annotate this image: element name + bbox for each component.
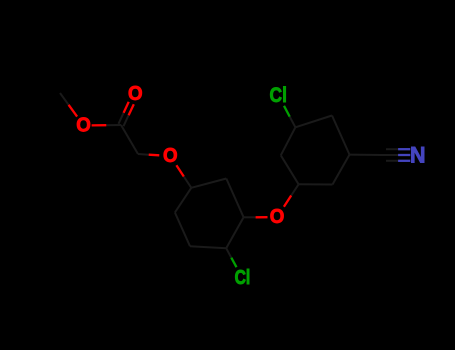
right benzene ring edge V_Cl-NE: [295, 116, 332, 128]
svg-text:O: O: [76, 115, 91, 137]
right benzene ring edge W-V_Cl: [281, 127, 296, 155]
left benzene ring edge B-C: [226, 179, 243, 218]
left benzene ring edge C-D: [226, 217, 243, 248]
svg-text:N: N: [410, 143, 426, 168]
right benzene ring edge SE-V_O: [299, 183, 333, 185]
double bond C2=O2 (carbonyl): [124, 115, 129, 126]
bond O3-A (aryl oxygen to left ring): [184, 177, 192, 188]
bond O4-V_O (right aryl oxygen to right ring): [291, 184, 298, 195]
left benzene ring edge E-F: [175, 213, 190, 247]
left benzene ring edge F-A: [175, 188, 191, 213]
right benzene ring edge NE-V_CN: [332, 116, 350, 155]
svg-text:O: O: [128, 83, 143, 105]
bond V_CN-CN (right ring to nitrile carbon): [350, 154, 387, 156]
bond C2-C3 (carbonyl carbon to CH2): [121, 125, 138, 154]
bond CH3-O1 (methyl to ester oxygen): [60, 93, 69, 105]
svg-text:O: O: [163, 145, 178, 167]
right benzene ring edge V_CN-SE: [333, 155, 350, 185]
triple bond CN#N (nitrile): [386, 148, 398, 150]
svg-text:O: O: [270, 206, 285, 228]
right benzene ring edge V_O-W: [281, 155, 299, 184]
bond D-Cl1 (left ring to bottom chlorine): [226, 248, 231, 258]
left benzene ring edge D-E: [190, 246, 226, 248]
bond C-O4 (left ring to right aryl oxygen): [244, 216, 256, 218]
svg-text:Cl: Cl: [235, 267, 251, 289]
bond V_Cl-Cl2 (right ring to top chlorine): [290, 117, 296, 128]
bond C3-O3 (CH2 to left aryl oxygen): [138, 153, 149, 156]
bond O1-C2 (ester oxygen to carbonyl carbon): [106, 124, 121, 126]
left benzene ring edge A-B: [191, 179, 226, 188]
svg-text:Cl: Cl: [270, 83, 287, 107]
